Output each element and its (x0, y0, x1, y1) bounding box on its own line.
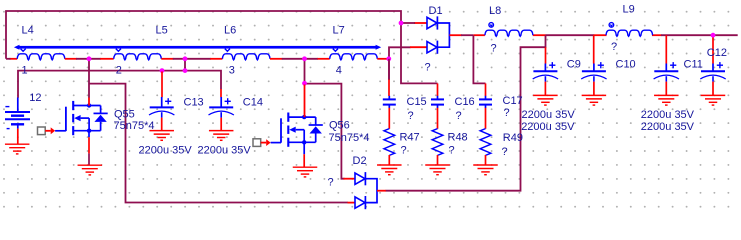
svg-text:C17: C17 (503, 95, 523, 107)
junction node 4 lower (302, 81, 307, 86)
wire C11 pin (665, 35, 667, 63)
resistor R49 (480, 108, 523, 158)
port Q55 gate (38, 127, 66, 135)
transformer core bar (14, 45, 381, 50)
svg-text:Q56: Q56 (329, 120, 350, 132)
capacitor C9 2200u 35V (533, 59, 581, 106)
svg-text:L5: L5 (156, 25, 168, 37)
svg-text:75n75*4: 75n75*4 (329, 132, 370, 144)
svg-text:C14: C14 (243, 96, 263, 108)
port Q56 gate (253, 139, 281, 147)
value label C9/C10 (521, 109, 575, 133)
junction node 2 (87, 56, 92, 61)
svg-text:?: ? (502, 146, 508, 158)
svg-text:?: ? (425, 62, 431, 74)
wire C17 pin (485, 83, 487, 96)
diode D2 (dual common cathode) (328, 155, 386, 209)
junction C12 tap (711, 33, 716, 38)
wire C15 pin (388, 59, 390, 96)
svg-text:C13: C13 (184, 96, 204, 108)
inductor L4 (10, 25, 77, 60)
svg-text:C11: C11 (684, 59, 703, 71)
svg-text:3: 3 (229, 64, 235, 76)
inductor L8 (485, 5, 533, 55)
svg-text:2200u 35V: 2200u 35V (641, 121, 695, 133)
wire L5-L6 (node 3 tap) (173, 58, 211, 60)
ground (Q56 source) (293, 167, 318, 177)
capacitor C14 2200u 35V (198, 96, 263, 156)
svg-text:Q55: Q55 (114, 108, 135, 120)
svg-text:L6: L6 (224, 25, 236, 37)
capacitor C11 2200u 35V (654, 59, 703, 106)
svg-text:D2: D2 (353, 155, 367, 167)
wire L4-L5 (node 2 tap) (76, 58, 101, 60)
value label C11/C12 (641, 109, 695, 133)
svg-text:R49: R49 (503, 132, 523, 144)
svg-text:2: 2 (116, 64, 122, 76)
svg-text:2200u 35V: 2200u 35V (198, 145, 252, 157)
junction node 3 top (183, 56, 188, 61)
svg-text:L7: L7 (333, 25, 345, 37)
wire node2 to Q55 drain / D2 lower feed (89, 59, 348, 203)
wire R49 ground pin (485, 155, 487, 165)
wire L4 left stub (6, 58, 11, 60)
capacitor C17 (479, 95, 523, 119)
wire Q55 source to ground (88, 131, 90, 166)
svg-text:?: ? (491, 43, 497, 55)
wire Q56 drain pin (304, 85, 306, 118)
svg-text:L9: L9 (623, 3, 635, 15)
wire Q55 drain pin (88, 98, 90, 106)
svg-text:?: ? (328, 177, 334, 189)
junction D1 anode tap (399, 21, 404, 26)
svg-text:?: ? (611, 41, 617, 53)
wire R47 ground pin (388, 155, 390, 165)
svg-text:4: 4 (336, 65, 342, 77)
svg-text:L4: L4 (22, 25, 34, 37)
wire C14 pin (220, 89, 222, 97)
inductor L6 (210, 25, 282, 60)
wire rail tap to C17 (473, 35, 485, 83)
svg-text:C10: C10 (616, 59, 636, 71)
svg-text:?: ? (456, 110, 462, 122)
wire battery rail (taps 1-2-3) (18, 71, 221, 98)
wire winding output to D1 bottom anode (389, 47, 411, 79)
battery 12V (5, 92, 42, 129)
svg-text:R48: R48 (448, 131, 468, 143)
inductor L5 (100, 25, 173, 60)
svg-text:D1: D1 (429, 5, 443, 17)
inductor L7 (318, 25, 389, 60)
wire C12 pin (712, 35, 714, 63)
wire L6-L7 (node 4 tap) (282, 58, 318, 60)
svg-text:C12: C12 (707, 47, 727, 59)
svg-text:C9: C9 (567, 59, 581, 71)
svg-text:75n75*4: 75n75*4 (114, 120, 155, 132)
wire node3 tap to rail (184, 59, 186, 71)
wire C16 pin (437, 83, 439, 96)
wire C10 pin (593, 35, 595, 63)
ground (R47) (377, 165, 402, 175)
wire R48 ground pin (437, 155, 439, 165)
junction node 3 rail (183, 68, 188, 73)
inductor L9 (606, 3, 653, 53)
ground (R48) (425, 165, 450, 175)
wire C13 pin (161, 72, 163, 98)
wire D1 anode branch down to C15/C16 row (401, 23, 438, 83)
capacitor C15 (383, 96, 427, 122)
wire Q56 source to ground (303, 142, 305, 167)
svg-text:C16: C16 (455, 96, 475, 108)
ground (R49) (473, 165, 498, 175)
ground (Q55 source) (78, 165, 103, 175)
pin label 3 (229, 64, 235, 76)
wire top border bus (input to D1) (6, 11, 401, 59)
resistor R48 (432, 108, 468, 157)
svg-text:?: ? (401, 145, 407, 157)
pin label 2 (116, 64, 122, 76)
capacitor C12 2200u 35V (700, 47, 727, 105)
transistor Q55 (66, 101, 155, 135)
resistor R47 (384, 108, 420, 157)
svg-text:?: ? (504, 107, 510, 119)
wire node4 to Q56 drain / D2 upper feed (305, 59, 345, 179)
svg-text:2200u 35V: 2200u 35V (521, 121, 575, 133)
transistor Q56 (281, 113, 370, 147)
wire output rail (461, 34, 738, 36)
svg-text:L8: L8 (489, 5, 501, 17)
wire D2 output to rail (386, 35, 546, 191)
svg-text:C15: C15 (407, 96, 427, 108)
pin label 1 (22, 64, 28, 76)
wire C9 pin (545, 47, 547, 63)
svg-text:12: 12 (29, 92, 41, 104)
junction C13 tap (160, 68, 165, 73)
wire D1 top stub (401, 22, 415, 24)
svg-text:2200u 35V: 2200u 35V (522, 109, 576, 121)
diode D1 (dual common cathode) (410, 5, 462, 74)
capacitor C10 2200u 35V (581, 59, 635, 106)
svg-text:2200u 35V: 2200u 35V (139, 145, 193, 157)
svg-text:R47: R47 (400, 131, 420, 143)
ground (battery) (5, 129, 30, 154)
junction winding output (386, 56, 391, 61)
svg-text:1: 1 (22, 64, 28, 76)
junction node 4 (302, 56, 307, 61)
capacitor C16 (431, 96, 475, 122)
pin label 4 (336, 65, 342, 77)
capacitor C13 2200u 35V (139, 96, 204, 156)
svg-text:2200u 35V: 2200u 35V (641, 109, 695, 121)
svg-text:?: ? (449, 145, 455, 157)
svg-text:?: ? (408, 110, 414, 122)
